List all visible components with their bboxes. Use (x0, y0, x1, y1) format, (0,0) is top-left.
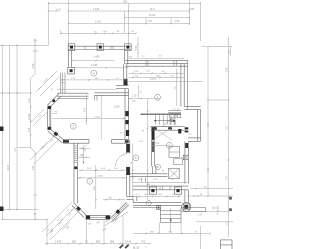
left dim vertical x=17 (16, 45, 18, 209)
texts stair area (139, 85, 180, 145)
wall interior y=174 (130, 174, 168, 177)
wall room1 bay south band (85, 215, 110, 219)
wall bay band right part (95, 93, 129, 101)
steps projection verticals (159, 222, 181, 233)
wall left wing west (69, 50, 72, 67)
dim corridor row1 (129, 71, 185, 75)
left dim vertical x=35 lower (32, 152, 37, 220)
svg-text:180: 180 (123, 0, 128, 4)
entry steps flight (160, 208, 181, 223)
left dim horizontal y=45.3 (0, 45, 49, 46)
right dim vertical x=208 (207, 47, 209, 197)
wall room1 east jog (126, 196, 137, 203)
stair treads (156, 113, 178, 127)
dim vertical x=132.8 (131, 144, 134, 200)
room circle 3 (70, 123, 76, 129)
svg-text:1.481: 1.481 (93, 54, 100, 58)
top right corner dim (202, 47, 232, 57)
south band jamb ticks (160, 186, 170, 190)
svg-text:1.05: 1.05 (29, 98, 31, 103)
svg-text:12.0: 12.0 (149, 7, 155, 11)
east wall window marker (181, 155, 188, 160)
bump interior dim (175, 68, 177, 106)
right dim horizontal y=211.5 (190, 211, 229, 216)
svg-text:1.91: 1.91 (174, 19, 180, 23)
bottom right vertical x=200 (199, 226, 201, 249)
column S4 west (68, 67, 75, 74)
dim bay interior vertical (85, 95, 88, 126)
bottom dim line y=233.5 (133, 231, 211, 234)
wall bay diag lower (48, 129, 65, 143)
svg-text:1.903: 1.903 (114, 106, 120, 108)
wall south jog left (142, 178, 146, 182)
top dim verticals (49, 0, 201, 46)
middle bay diagonal dims (30, 134, 60, 164)
svg-text:1.47: 1.47 (198, 214, 203, 216)
bottom dim line y=243.5 (45, 240, 151, 245)
column S5 south (149, 187, 156, 194)
room circle 8b (155, 164, 160, 169)
dimension line top fourth (y=23.5) (68, 19, 190, 24)
dimension line top outer (y=3) (48, 0, 201, 4)
left edge section mark lower (0, 207, 4, 212)
bath wall y=126 extension (181, 127, 185, 131)
veranda band (133, 203, 182, 208)
steps corner post (157, 206, 161, 210)
dim vertical x=147.6 (147, 99, 149, 200)
bottom dim vertical x=123 (122, 215, 124, 247)
porch lower dim line (196, 221, 233, 223)
column S2 top-mid (97, 44, 104, 51)
stairwell cross (153, 128, 172, 141)
kitchen fixture 2 (169, 168, 180, 178)
svg-text:1.05: 1.05 (29, 127, 31, 132)
kitchen fixtures (169, 147, 182, 165)
small dark box right (178, 129, 181, 133)
dimension line top third (y=17.5) (124, 13, 190, 18)
dim vertical x=138 with text (135, 37, 138, 58)
column S1 top-left (68, 44, 75, 51)
texts wall room3 door (79, 146, 90, 152)
dim verticals below bay (86, 221, 104, 244)
stair arrow (154, 120, 176, 122)
right dim horizontal y=100 (208, 99, 229, 101)
texts bath (170, 109, 192, 137)
column S6 south (174, 187, 181, 194)
svg-text:1.438: 1.438 (91, 64, 98, 67)
texts near corridor door (114, 95, 160, 108)
left dim rotated text x=9 (7, 148, 17, 171)
porch column (182, 202, 191, 211)
wall right wing south band (133, 182, 188, 190)
dim corridor row2 (129, 76, 185, 79)
top small dim row (y=33.5) (60, 30, 136, 34)
wall room3 south band right stub (112, 140, 129, 144)
svg-text:4.043: 4.043 (94, 116, 100, 118)
porch post wall (185, 190, 188, 202)
svg-text:1.443: 1.443 (93, 7, 100, 11)
svg-text:1.16: 1.16 (33, 50, 38, 53)
right edge bold ticks (229, 197, 232, 211)
window west jamb lines (61, 73, 65, 94)
right dim vertical x=228.5 (226, 37, 230, 237)
room circle 4 (91, 70, 97, 76)
svg-text:2.03: 2.03 (154, 143, 159, 145)
svg-text:5.90: 5.90 (135, 45, 138, 50)
svg-text:6.170: 6.170 (150, 79, 156, 81)
wall right wing east lower (185, 127, 189, 183)
dim vertical x=95.8 room1 (94, 165, 97, 209)
upper bay diagonal dims 2 (30, 109, 47, 126)
wall room1 bay diag left (72, 203, 86, 217)
svg-text:3.53: 3.53 (32, 63, 35, 68)
texts room1 interior (103, 184, 160, 201)
texts below bay (88, 220, 110, 226)
dim line y=177.8 room1 (77, 176, 126, 179)
left dim vertical x=9.5 (9, 45, 11, 209)
room circle 6 (133, 155, 139, 161)
texts center rooms (120, 131, 174, 188)
svg-text:980: 980 (72, 240, 77, 244)
dim room4 lower row (61, 78, 127, 81)
texts small top mid (128, 56, 184, 59)
texts veranda dims (134, 194, 181, 197)
wall stair west (152, 127, 155, 167)
wall bump south (188, 138, 200, 141)
left dim vertical x=30.5 mid (29, 74, 35, 152)
dimension line top second (y=11) (55, 7, 194, 12)
dim right y=188.5 (190, 187, 233, 190)
left dim horizontal y=147.5 (17, 147, 31, 149)
tick on x=48.5 at y=11 (48, 10, 58, 12)
wall corridor upper band (116, 85, 129, 88)
bottom section marks (119, 244, 147, 249)
left dim vertical x=2.5 (2, 45, 4, 219)
room circle 1 (87, 178, 93, 184)
svg-text:1.141: 1.141 (95, 19, 102, 23)
wall room3 south band (63, 140, 89, 144)
svg-text:980: 980 (110, 240, 115, 244)
dim bay small row2 (77, 155, 90, 158)
svg-text:4.443: 4.443 (125, 240, 132, 244)
left dim horizontal y=209.5 (0, 209, 38, 210)
wall room1 east (126, 130, 130, 196)
svg-text:4.043: 4.043 (97, 176, 103, 178)
room circle 8 (166, 143, 172, 149)
door arc room1 (116, 154, 127, 167)
svg-text:2.98: 2.98 (226, 67, 229, 72)
bath door arc (170, 119, 176, 125)
lower bay diagonal dims right (103, 212, 128, 232)
column S3 top-right (125, 44, 132, 51)
wall stair south (151, 127, 182, 131)
room circle 1b (146, 201, 151, 206)
left dim horizontal y=93 (0, 92, 31, 93)
wall corridor west mid (125, 89, 129, 140)
dim bay interior vertical2 (82, 147, 85, 164)
wall right wing top band (125, 60, 187, 66)
room circle 2 (155, 94, 161, 100)
wall left wing top band (68, 46, 131, 49)
svg-text:3.02: 3.02 (85, 107, 87, 112)
svg-text:980: 980 (96, 240, 101, 244)
lower bay diagonal marks (62, 222, 71, 230)
right dim rotated text x=210 (207, 123, 210, 172)
wall room1 west (74, 143, 78, 203)
right small tick group (213, 206, 220, 216)
dim room7 long (129, 79, 204, 81)
dim room3 width (52, 116, 126, 119)
corridor jamb projection line (100, 96, 102, 140)
wall room1 bay diag right (109, 202, 129, 221)
entry steps side (181, 208, 206, 212)
dim line y=170 room1 top (79, 168, 126, 171)
wall bay west (48, 106, 58, 130)
bottom dim vertical x=47 (46, 220, 48, 246)
svg-text:0.99: 0.99 (189, 7, 195, 11)
svg-text:7.04: 7.04 (32, 165, 35, 170)
wall corridor west upper (123, 50, 127, 85)
lower bay diagonal dims left (42, 202, 80, 240)
bottom right box (221, 240, 233, 249)
wall bay diag upper (47, 94, 60, 107)
dim room4 interior (72, 54, 128, 68)
svg-text:(1-1): (1-1) (133, 245, 139, 249)
wall bump north (184, 106, 200, 109)
svg-text:743: 743 (141, 240, 146, 244)
right dim horizontal y=196 (187, 194, 233, 197)
left edge section mark upper (0, 127, 4, 132)
left dim vertical x=35 upper (32, 39, 38, 75)
svg-text:2.18: 2.18 (132, 95, 137, 97)
wall interior x=152.5 lower (153, 166, 156, 174)
left dim horizontal y=219.5 (2, 219, 48, 220)
stair landing edge (141, 113, 182, 115)
bath wall y=111 (168, 111, 181, 113)
svg-text:2.044: 2.044 (29, 113, 31, 119)
wall bay top band (57, 93, 89, 99)
svg-text:12.90: 12.90 (149, 13, 156, 17)
wall bump east (197, 110, 200, 142)
upper bay diagonal dims (36, 71, 59, 96)
svg-text:7.01: 7.01 (147, 19, 153, 23)
svg-text:3.5: 3.5 (33, 39, 37, 43)
dim room4 y=89 line (57, 88, 116, 90)
bath fixture (170, 114, 181, 119)
wall right wing east upper (181, 60, 188, 106)
svg-text:1.443: 1.443 (55, 240, 62, 244)
svg-text:10.44: 10.44 (7, 164, 10, 171)
